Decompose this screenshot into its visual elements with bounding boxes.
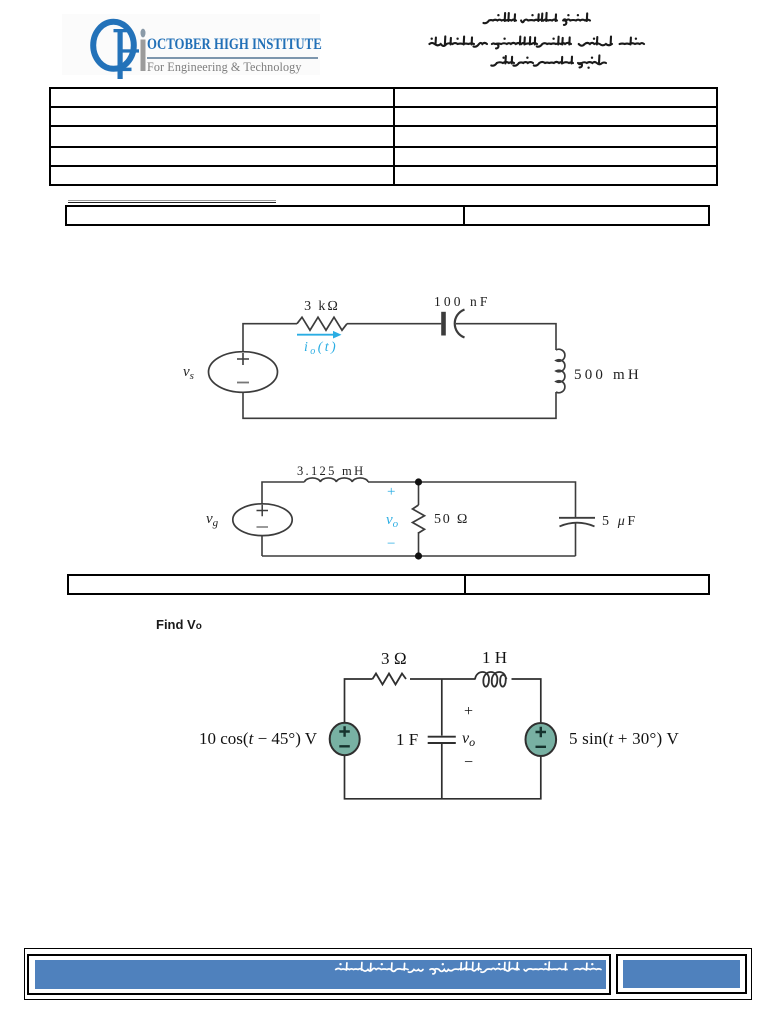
logo i stem gray [141, 40, 146, 72]
wire resistor to cap [347, 323, 441, 325]
capacitor 5uF curved plate [560, 523, 595, 527]
footer right blue bar [623, 960, 740, 988]
resistor 3 Ohm [373, 674, 407, 685]
source right 5sin [526, 723, 557, 756]
label plus cyan [387, 484, 395, 501]
capacitor curved plate [455, 310, 465, 338]
logo text For Engineering & Technology [147, 60, 302, 75]
wire cap down [575, 524, 577, 557]
node dot bottom [415, 552, 422, 559]
wire ind to right [512, 679, 541, 722]
resistor 50 vertical [413, 505, 425, 533]
label vo [462, 730, 475, 750]
label io(t) [304, 340, 338, 357]
capacitor plate bar [441, 312, 446, 336]
wire right down [243, 392, 556, 418]
info table 5x2 [49, 87, 718, 186]
logo ring O [93, 22, 134, 69]
wire top left [345, 679, 373, 723]
source vs ellipse [209, 352, 278, 393]
inductor 500mH [556, 349, 565, 393]
wire top left [243, 324, 297, 352]
label 500 mH [574, 367, 642, 384]
box row 2 [67, 574, 710, 595]
logo text OCTOBER HIGH INSTITUTE [147, 36, 322, 54]
label minus cyan [387, 536, 395, 553]
box row 1 [65, 205, 711, 227]
logo October High Institute [62, 14, 320, 75]
resistor 3k zigzag [297, 317, 347, 330]
inductor 3.125mH [305, 478, 369, 482]
footer left box [27, 954, 611, 995]
cap 1F top plate [428, 736, 456, 738]
source vg ellipse [233, 504, 292, 536]
wire mid down [441, 679, 443, 736]
header arabic text [0, 0, 768, 90]
label vg [206, 511, 218, 529]
footer left blue bar [35, 960, 606, 989]
source minus [237, 382, 249, 384]
label 1F [396, 730, 418, 750]
label 1 H [482, 648, 507, 668]
cap 1F bottom plate [428, 742, 456, 744]
wire bottom [345, 756, 541, 799]
label vs [183, 364, 194, 382]
wire source bottom [261, 536, 263, 557]
footer right box [616, 954, 747, 994]
wire top-left [262, 482, 305, 504]
wire mid bottom [262, 532, 576, 556]
node dot top [415, 478, 422, 485]
logo H crossbar [118, 49, 139, 52]
underline above box1 [68, 200, 276, 201]
label 3.125 mH [297, 464, 365, 479]
wire mid top [418, 482, 420, 505]
source left 10cos [330, 723, 360, 755]
logo underline [147, 57, 318, 59]
wire mid bottom [441, 744, 443, 799]
label 100 nF [434, 294, 490, 310]
capacitor 5uF top plate [559, 517, 595, 519]
wire res to mid [410, 678, 475, 680]
vg minus [257, 526, 269, 528]
label 3 Ohm [381, 649, 407, 669]
label vo cyan [386, 512, 398, 530]
logo i dot [141, 29, 146, 38]
Find Vo [156, 617, 202, 632]
inductor 1H [475, 672, 507, 687]
label 50 Ohm [434, 512, 469, 528]
current arrow io [297, 334, 333, 336]
footer outer box [24, 948, 752, 1000]
vg plus [257, 505, 269, 517]
wire ind to right [368, 482, 576, 517]
label 10cos [199, 729, 317, 749]
logo letter I stem [118, 30, 123, 80]
wire cap to corner [456, 324, 556, 350]
label plus [464, 703, 473, 721]
label 5 uF [602, 514, 638, 530]
label minus [464, 754, 473, 772]
label 5sin [569, 729, 679, 749]
label 3 kOhm [297, 299, 347, 315]
source plus [237, 353, 249, 365]
